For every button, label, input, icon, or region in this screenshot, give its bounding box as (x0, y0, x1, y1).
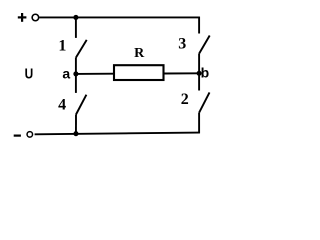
svg-text:1: 1 (58, 38, 66, 55)
svg-text:b: b (201, 64, 210, 80)
svg-text:2: 2 (181, 91, 189, 108)
svg-text:a: a (62, 66, 70, 82)
svg-text:R: R (134, 46, 145, 61)
svg-text:U: U (25, 66, 34, 82)
svg-text:3: 3 (178, 35, 186, 52)
svg-text:4: 4 (58, 97, 66, 114)
